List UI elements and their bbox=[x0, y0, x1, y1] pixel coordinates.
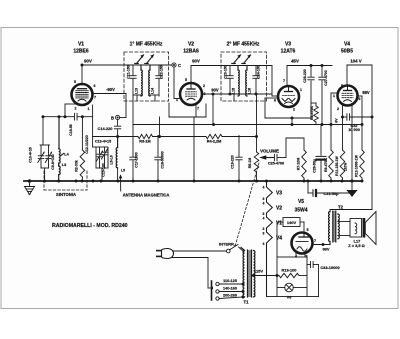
wire MF1 bottoms bbox=[133, 95, 159, 125]
wire V3 cathode loop bbox=[265, 81, 311, 120]
svg-text:V6: V6 bbox=[287, 295, 293, 300]
svg-text:1: 1 bbox=[333, 94, 335, 98]
capacitor C18-50000 bbox=[155, 136, 165, 182]
ground bus bbox=[24, 179, 364, 182]
svg-text:12BE6: 12BE6 bbox=[73, 49, 89, 55]
svg-text:4: 4 bbox=[263, 186, 265, 190]
svg-text:1° MF 455KHz: 1° MF 455KHz bbox=[130, 42, 163, 48]
svg-text:2: 2 bbox=[203, 84, 205, 88]
trimmer arrows MF1 bbox=[135, 54, 154, 63]
capacitor C22-150 bbox=[156, 65, 164, 96]
wire B+ drop right bbox=[371, 65, 374, 210]
resistor R12-1000-1W bbox=[355, 125, 365, 181]
IF transformer 2nd MF dashed box bbox=[221, 52, 267, 101]
svg-text:R4-2,2M: R4-2,2M bbox=[207, 140, 222, 144]
svg-text:5: 5 bbox=[185, 78, 187, 82]
svg-text:C16-56: C16-56 bbox=[69, 124, 73, 136]
label 2nd MF 455KHz bbox=[227, 42, 260, 48]
pin numbers V2 bbox=[176, 78, 206, 111]
svg-text:50B5: 50B5 bbox=[341, 49, 353, 55]
wire C25 to R7 bbox=[286, 138, 304, 158]
wire V4 pin6 drop bbox=[358, 90, 370, 125]
pin numbers V3 bbox=[274, 79, 302, 112]
tube V3 12AT6 bbox=[278, 86, 299, 107]
svg-text:C23-150: C23-150 bbox=[224, 65, 228, 78]
svg-text:C: C bbox=[178, 63, 181, 68]
svg-text:2° MF 455KHz: 2° MF 455KHz bbox=[227, 42, 260, 48]
label V1 12BE6 bbox=[73, 42, 89, 55]
node C bbox=[172, 63, 181, 68]
label 140V box bbox=[283, 218, 300, 227]
svg-text:C22-150: C22-150 bbox=[160, 65, 164, 78]
svg-text:C15-100: C15-100 bbox=[102, 163, 106, 176]
wire plug to selector bbox=[173, 258, 214, 290]
wire V2 cathode loop bbox=[169, 103, 206, 117]
ground symbol right bbox=[347, 181, 358, 197]
wire V4 cathode column bbox=[351, 106, 353, 182]
wire grid return line bbox=[93, 135, 258, 138]
wiper arrow bbox=[259, 155, 274, 159]
svg-text:INTERR.: INTERR. bbox=[219, 242, 235, 247]
wire 45V rail V3 bbox=[287, 59, 332, 68]
wire trimmer bottoms to bus bbox=[41, 168, 49, 181]
wire V1 anode stem bbox=[81, 64, 84, 86]
capacitor C28-220 bbox=[303, 66, 314, 83]
svg-text:SINTONIA: SINTONIA bbox=[56, 192, 76, 197]
wire 90V rail V1 to node C bbox=[82, 59, 172, 66]
resistor R9-470K bbox=[324, 93, 333, 181]
svg-text:C10-4+15: C10-4+15 bbox=[29, 147, 33, 163]
resistor R3-1M bbox=[138, 134, 153, 143]
coil L13 bbox=[135, 65, 143, 96]
svg-text:7: 7 bbox=[314, 239, 316, 243]
capacitor C15 bbox=[102, 163, 106, 176]
svg-text:90V: 90V bbox=[84, 59, 92, 64]
svg-text:45V: 45V bbox=[291, 59, 299, 64]
wire AVC line bbox=[133, 123, 364, 126]
ground symbol left bbox=[25, 179, 35, 194]
dashed box sintonia bbox=[44, 171, 87, 190]
resistor R4-2,2M bbox=[206, 134, 222, 143]
antenna coil L5 L6 bbox=[110, 137, 126, 182]
coil L14 bbox=[149, 65, 155, 96]
svg-text:6: 6 bbox=[274, 99, 276, 103]
dashed gang line bbox=[235, 163, 259, 247]
svg-text:T2: T2 bbox=[338, 205, 344, 210]
svg-text:-90V: -90V bbox=[106, 87, 115, 92]
svg-text:C17-1000: C17-1000 bbox=[135, 152, 139, 167]
svg-text:R11-150-1W: R11-150-1W bbox=[335, 155, 339, 175]
svg-text:10 000: 10 000 bbox=[348, 128, 360, 132]
svg-text:1: 1 bbox=[300, 88, 302, 92]
wire V1 pin1 column bbox=[93, 105, 96, 147]
svg-text:7: 7 bbox=[197, 107, 199, 111]
svg-text:C19-220: C19-220 bbox=[231, 155, 235, 168]
svg-text:3: 3 bbox=[263, 227, 265, 231]
svg-text:Z = 3,5 Ω: Z = 3,5 Ω bbox=[348, 243, 364, 248]
svg-text:7: 7 bbox=[94, 96, 96, 100]
svg-text:2: 2 bbox=[75, 107, 77, 111]
svg-text:140-160: 140-160 bbox=[223, 287, 237, 291]
svg-text:C31-50μ: C31-50μ bbox=[323, 191, 339, 196]
wire B+ to T2 bbox=[330, 210, 372, 213]
svg-text:C28-220: C28-220 bbox=[303, 69, 307, 82]
pilot lamp V6 bbox=[277, 283, 307, 299]
svg-text:5: 5 bbox=[341, 84, 343, 88]
label V3 12AT6 bbox=[281, 42, 296, 55]
capacitor C32 10000 bbox=[343, 114, 373, 132]
svg-text:L14: L14 bbox=[151, 88, 155, 94]
wire V3 pin7 stem bbox=[286, 66, 288, 87]
svg-text:4: 4 bbox=[263, 242, 265, 246]
wire plug to switch bbox=[173, 250, 227, 252]
svg-text:VOLUME: VOLUME bbox=[260, 149, 279, 154]
label V5 35W4 bbox=[294, 199, 307, 214]
svg-text:98V: 98V bbox=[362, 90, 370, 95]
svg-text:R2-33k: R2-33k bbox=[75, 160, 79, 172]
svg-text:V2: V2 bbox=[188, 42, 194, 48]
label V2 12BA6 bbox=[183, 42, 199, 55]
pin numbers V4 bbox=[333, 84, 361, 111]
voltage selector bbox=[212, 281, 245, 300]
capacitor C31-50u electrolytic bbox=[308, 181, 352, 196]
variable capacitor C10-4+15 bbox=[29, 145, 45, 168]
voltage selector labels bbox=[223, 279, 237, 298]
svg-text:R8-470K: R8-470K bbox=[310, 106, 314, 120]
capacitor C16-56 bbox=[69, 113, 77, 135]
potentiometer R5-1M volume bbox=[248, 94, 259, 181]
capacitor C29-50u electrolytic bbox=[313, 125, 327, 182]
capacitor C27-4700 bbox=[319, 66, 328, 125]
capacitor C14-220 bbox=[98, 120, 121, 137]
svg-text:L5: L5 bbox=[121, 169, 125, 173]
svg-text:L16: L16 bbox=[248, 88, 252, 94]
variable capacitor C9 bbox=[45, 145, 55, 170]
capacitor C33-10000 bbox=[267, 262, 340, 297]
svg-text:C24-150: C24-150 bbox=[257, 65, 261, 78]
wire node C to V2 grid bbox=[174, 67, 181, 98]
wire T1 tap 115V bbox=[253, 275, 255, 277]
svg-text:3: 3 bbox=[263, 232, 265, 236]
wire grid top line bbox=[43, 115, 93, 118]
heater chain V3 V2 V1 V4 bbox=[267, 181, 273, 297]
svg-text:5: 5 bbox=[74, 80, 76, 84]
wire V5 pin7 to T2 bbox=[313, 243, 331, 252]
tube V2 12BA6 bbox=[180, 83, 202, 105]
svg-text:90V: 90V bbox=[192, 59, 200, 64]
svg-text:ANTENNA MAGNETICA: ANTENNA MAGNETICA bbox=[123, 193, 170, 198]
heater labels bbox=[263, 186, 283, 247]
svg-text:90V: 90V bbox=[211, 88, 219, 93]
svg-text:R7-10M: R7-10M bbox=[297, 158, 301, 171]
svg-text:C13-4+15: C13-4+15 bbox=[95, 140, 111, 144]
wire MF2 secondary to V3 grid bbox=[256, 66, 278, 97]
coil L4 L3 bbox=[59, 117, 70, 181]
svg-text:110-125: 110-125 bbox=[223, 279, 237, 283]
wire AVC drop x213 bbox=[212, 94, 214, 125]
svg-text:12BA6: 12BA6 bbox=[183, 49, 199, 55]
svg-text:140V: 140V bbox=[287, 220, 297, 225]
svg-text:V5: V5 bbox=[298, 199, 304, 205]
svg-text:C25-4700: C25-4700 bbox=[268, 162, 284, 166]
svg-text:C29-50μ: C29-50μ bbox=[313, 159, 317, 173]
tuning gang box C11 C13 bbox=[95, 140, 111, 182]
variable capacitor C11 bbox=[97, 147, 103, 168]
capacitor C19-220 bbox=[231, 136, 243, 182]
tube V5 35W4 bbox=[292, 233, 313, 254]
capacitor C24-150 bbox=[253, 65, 261, 94]
svg-text:4: 4 bbox=[263, 202, 265, 206]
wire V1 pin2 bbox=[65, 104, 75, 117]
wire V2 anode stem bbox=[190, 66, 192, 84]
svg-text:R13-100: R13-100 bbox=[282, 268, 297, 273]
label ANTENNA MAGNETICA bbox=[119, 175, 170, 198]
tube V1 12BE6 bbox=[72, 84, 93, 105]
svg-text:V2: V2 bbox=[276, 206, 282, 212]
pin numbers V5 bbox=[295, 228, 316, 259]
svg-text:R12-1000-1W: R12-1000-1W bbox=[355, 154, 359, 176]
svg-text:6V: 6V bbox=[335, 118, 339, 123]
pin numbers V1 bbox=[74, 80, 96, 111]
coil L16 bbox=[246, 66, 252, 96]
resistor R13-100 bbox=[252, 268, 307, 278]
label SINTONIA bbox=[56, 192, 76, 197]
wire oscillator trimmer feed bbox=[40, 115, 50, 145]
svg-text:L15: L15 bbox=[232, 88, 236, 94]
svg-text:C18-50000: C18-50000 bbox=[161, 151, 165, 168]
tube V4 50B5 bbox=[338, 86, 358, 106]
mains plug bbox=[156, 249, 174, 259]
svg-text:B: B bbox=[111, 116, 114, 121]
svg-text:V1: V1 bbox=[78, 42, 84, 48]
capacitor C23-150 bbox=[224, 65, 234, 94]
output transformer T2 bbox=[329, 205, 344, 245]
wire 104V rail V4 bbox=[347, 59, 372, 66]
svg-text:C32: C32 bbox=[351, 124, 358, 128]
capacitor C25-4700 bbox=[268, 154, 286, 165]
speaker bbox=[338, 212, 376, 245]
svg-text:V3: V3 bbox=[285, 42, 291, 48]
label L17 speaker bbox=[348, 238, 364, 248]
wire V2 plate line bbox=[202, 88, 273, 96]
svg-text:L5-L6: L5-L6 bbox=[110, 155, 114, 164]
resistor R7-10M bbox=[297, 138, 307, 181]
svg-text:2: 2 bbox=[337, 107, 339, 111]
svg-text:RADIOMARELLI - MOD. RD240: RADIOMARELLI - MOD. RD240 bbox=[52, 223, 128, 229]
svg-text:5: 5 bbox=[307, 228, 309, 232]
svg-text:C27-4700: C27-4700 bbox=[324, 70, 328, 85]
svg-text:6: 6 bbox=[359, 97, 361, 101]
wire 140V box connections bbox=[277, 222, 304, 257]
svg-text:L13: L13 bbox=[135, 88, 139, 94]
svg-text:V4: V4 bbox=[344, 42, 350, 48]
wire MF2 bottoms bbox=[230, 94, 256, 101]
svg-text:R5-1M: R5-1M bbox=[248, 158, 252, 169]
coil L15 bbox=[232, 66, 240, 96]
variable capacitor C13 bbox=[102, 147, 108, 168]
svg-text:C33-10000: C33-10000 bbox=[320, 265, 339, 270]
resistor R10-150-1W bbox=[335, 106, 348, 182]
svg-text:110%: 110% bbox=[344, 163, 348, 171]
svg-text:C14-220: C14-220 bbox=[98, 126, 113, 131]
wire V3 drop bbox=[291, 118, 293, 125]
switch interruttore bbox=[219, 242, 244, 253]
svg-text:C21-150: C21-150 bbox=[127, 65, 131, 78]
svg-text:R9-470K: R9-470K bbox=[324, 158, 328, 172]
wire V2 screen drop bbox=[160, 117, 195, 181]
wire V4 anode stem bbox=[346, 65, 348, 86]
label 6V bbox=[335, 118, 339, 123]
wire V4 grid stub bbox=[330, 93, 338, 126]
resistor R2-33k bbox=[75, 117, 85, 181]
svg-text:3: 3 bbox=[263, 212, 265, 216]
svg-text:T1: T1 bbox=[244, 300, 250, 305]
label 1st MF 455KHz bbox=[130, 42, 163, 48]
svg-text:6: 6 bbox=[94, 84, 96, 88]
svg-text:12AT6: 12AT6 bbox=[281, 49, 296, 55]
label RADIOMARELLI bbox=[52, 223, 128, 229]
label VOLUME bbox=[260, 149, 279, 154]
wire R13 box bbox=[277, 254, 307, 297]
svg-text:1: 1 bbox=[88, 107, 90, 111]
svg-text:2: 2 bbox=[293, 108, 295, 112]
svg-text:1: 1 bbox=[176, 98, 178, 102]
svg-text:104 V: 104 V bbox=[350, 59, 361, 64]
svg-text:C9-8+140: C9-8+140 bbox=[51, 154, 55, 170]
svg-text:200-260: 200-260 bbox=[223, 294, 237, 298]
svg-text:3: 3 bbox=[263, 197, 265, 201]
resistor R8-470K bbox=[310, 103, 318, 125]
node B bbox=[111, 115, 120, 120]
capacitor C17-1000 bbox=[130, 125, 139, 182]
IF transformer 1st MF dashed box bbox=[124, 52, 169, 101]
svg-text:35W4: 35W4 bbox=[294, 208, 307, 214]
wire V1 pin6 to AVC node B bbox=[93, 87, 127, 118]
svg-text:L3: L3 bbox=[62, 163, 66, 167]
svg-text:R3-1M: R3-1M bbox=[139, 140, 150, 144]
svg-text:7: 7 bbox=[283, 79, 285, 83]
trimmer arrows MF2 bbox=[232, 54, 251, 63]
wire 90V rail V2 bbox=[191, 59, 272, 66]
label V4 50B5 bbox=[341, 42, 353, 55]
autotransformer T1 bbox=[241, 248, 255, 305]
svg-text:C12-11/220: C12-11/220 bbox=[85, 135, 89, 154]
svg-text:98V: 98V bbox=[322, 247, 329, 252]
capacitor C21-150 bbox=[127, 65, 137, 96]
capacitor C12 label bbox=[85, 135, 89, 154]
svg-text:V3: V3 bbox=[276, 191, 282, 197]
svg-text:4: 4 bbox=[263, 217, 265, 221]
